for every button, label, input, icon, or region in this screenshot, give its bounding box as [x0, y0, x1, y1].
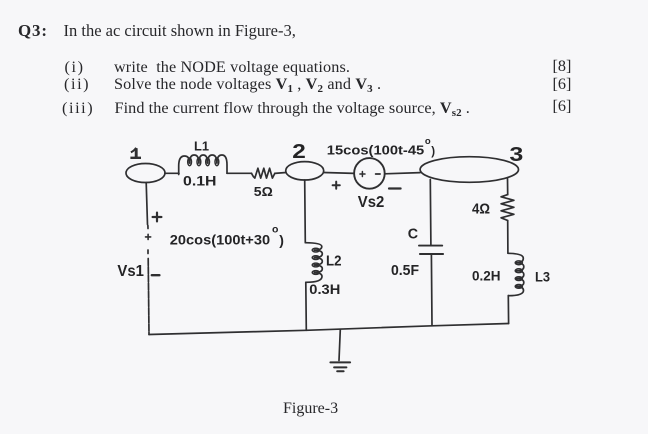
wire node1 to L1	[165, 172, 179, 174]
item (i)	[65, 59, 85, 75]
label - polarity of Vs1	[152, 274, 160, 276]
voltage source Vs1 branch wire lower	[147, 259, 150, 335]
resistor 4 ohm	[501, 195, 514, 221]
wire Vs2 to node 3	[385, 173, 420, 174]
svg-text:4Ω: 4Ω	[472, 202, 490, 218]
inductor L1	[179, 155, 227, 175]
svg-text:): )	[279, 232, 284, 248]
inductor L3	[508, 253, 524, 295]
svg-text:3: 3	[509, 142, 523, 165]
svg-text:2: 2	[292, 140, 306, 162]
wire L2 to bottom	[305, 282, 308, 330]
resistor 5 ohm	[252, 168, 275, 178]
svg-text:o: o	[272, 223, 278, 235]
label + polarity of Vs1 (outer)	[153, 213, 162, 222]
inductor L2	[305, 243, 322, 283]
label + polarity of Vs2	[333, 182, 340, 189]
wire L3 to bottom	[507, 296, 509, 324]
item (iii)	[62, 100, 94, 116]
svg-text:L2: L2	[326, 254, 342, 270]
wire node2 to Vs2	[324, 172, 354, 175]
svg-text:0.3H: 0.3H	[309, 281, 340, 297]
svg-text:0.5F: 0.5F	[391, 263, 419, 279]
svg-text:o: o	[425, 136, 431, 147]
svg-text:L3: L3	[535, 270, 550, 286]
voltage source Vs1 branch wire upper	[146, 183, 147, 225]
question header text	[18, 23, 48, 39]
svg-text:C: C	[408, 226, 418, 242]
item (ii)	[64, 76, 90, 92]
voltage source Vs2	[354, 158, 385, 189]
svg-text:5Ω: 5Ω	[254, 184, 273, 199]
svg-text:L1: L1	[194, 139, 209, 154]
svg-text:Vs1: Vs1	[117, 263, 144, 280]
label 20cos(100t+30deg)	[170, 223, 284, 248]
node 3	[420, 142, 523, 182]
svg-text:0.1H: 0.1H	[183, 174, 217, 189]
svg-text:20cos(100t+30: 20cos(100t+30	[170, 232, 270, 248]
wire node2 down to L2	[304, 180, 307, 243]
svg-text:): )	[431, 146, 435, 158]
label - polarity of Vs2	[389, 187, 401, 189]
svg-text:0.2H: 0.2H	[472, 269, 501, 285]
label 15cos(100t-45deg)	[327, 136, 436, 158]
caption Figure-3	[283, 401, 338, 417]
svg-text:15cos(100t-45: 15cos(100t-45	[327, 143, 424, 158]
wire node3 down to capacitor	[429, 180, 432, 245]
bottom wire	[149, 324, 509, 335]
wire capacitor to bottom	[430, 255, 433, 326]
wire resistor to node 2	[275, 172, 286, 175]
svg-text:Vs2: Vs2	[358, 194, 385, 211]
wire L1 to resistor	[227, 172, 252, 174]
wire node3 down to 4ohm resistor	[507, 179, 509, 195]
node 1	[126, 148, 165, 183]
node 2	[286, 140, 324, 180]
wire 4ohm to L3	[507, 221, 509, 254]
ground	[330, 330, 350, 372]
voltage source Vs1 dashes and plus	[146, 226, 151, 254]
capacitor C	[419, 246, 443, 254]
